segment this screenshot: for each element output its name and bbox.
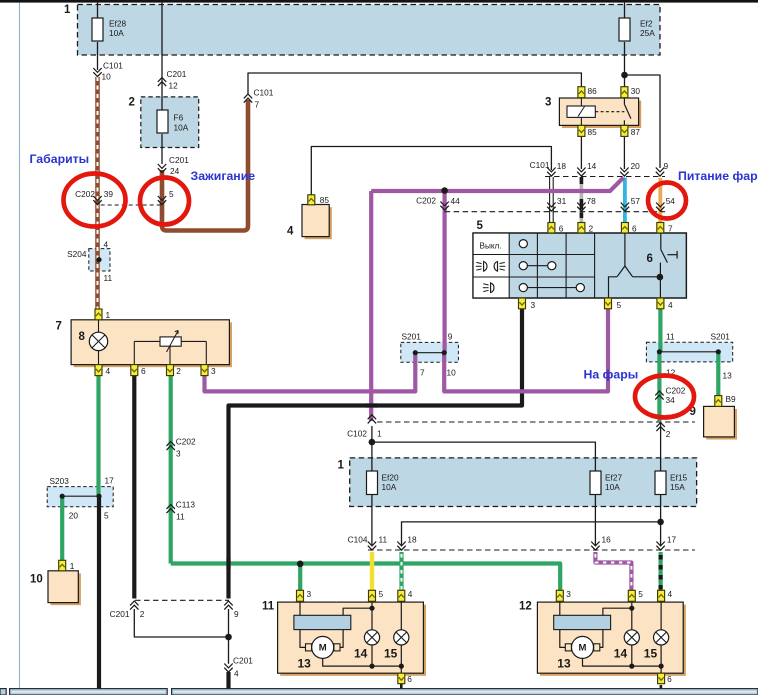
svg-text:18: 18 xyxy=(557,161,567,171)
headlamp unit 12 (right) body and internals xyxy=(537,602,685,676)
wire bus to C201-12 through box 1 xyxy=(161,3,163,110)
fuse Ef20 10A xyxy=(367,471,399,495)
svg-text:13: 13 xyxy=(298,657,312,671)
connector C102-1 xyxy=(347,415,382,439)
cluster terminal 2 xyxy=(167,365,182,376)
svg-text:85: 85 xyxy=(320,195,330,205)
svg-text:Зажигание: Зажигание xyxy=(191,169,256,183)
svg-text:C202: C202 xyxy=(176,437,196,447)
relay terminal 85 xyxy=(578,125,597,137)
svg-text:S204: S204 xyxy=(67,249,87,259)
svg-text:6: 6 xyxy=(647,253,653,265)
svg-text:4: 4 xyxy=(104,240,109,250)
connector C113-11 xyxy=(167,500,196,522)
junction dot green fog feed xyxy=(297,561,304,568)
highlight ellipse C202-34 xyxy=(635,376,694,418)
wire green branch to lamp 11 pin 3 xyxy=(298,564,302,591)
connector C201-12 xyxy=(158,69,187,90)
svg-text:5: 5 xyxy=(169,189,174,199)
svg-text:1: 1 xyxy=(70,561,75,571)
svg-text:13: 13 xyxy=(557,657,571,671)
svg-text:4: 4 xyxy=(408,589,413,599)
svg-text:C113: C113 xyxy=(176,500,196,510)
cluster terminal 3 xyxy=(201,365,216,376)
bottom strip box right xyxy=(172,689,758,695)
wire C102 branch to Ef27 xyxy=(372,442,596,471)
component B9 body xyxy=(704,406,737,439)
svg-text:M: M xyxy=(319,643,327,654)
headlamp 11 (left) terminal 5 xyxy=(369,589,384,601)
wire C201-4 to next page (thick) xyxy=(226,672,230,689)
svg-text:5: 5 xyxy=(638,589,643,599)
relay K3 body xyxy=(559,98,641,128)
svg-text:10A: 10A xyxy=(605,482,620,492)
label 3 xyxy=(545,97,551,109)
label C101 relay row xyxy=(530,160,550,170)
svg-text:44: 44 xyxy=(451,196,461,206)
svg-text:11: 11 xyxy=(176,512,185,522)
svg-text:1: 1 xyxy=(377,429,382,439)
svg-text:F6: F6 xyxy=(174,113,184,123)
wire purple cluster pin 3 to S201-7 xyxy=(205,353,416,392)
svg-text:6: 6 xyxy=(667,674,672,684)
connector C104-11 xyxy=(348,535,388,551)
headlamp 11 (left) terminal 6 xyxy=(398,673,413,684)
headlamp 11 (left) terminal 4 xyxy=(398,589,413,601)
junction dot ground bus join xyxy=(225,634,232,641)
relay K3 contact xyxy=(595,98,631,125)
connector C101-10 xyxy=(93,61,123,82)
switch contact row 3 xyxy=(519,284,584,292)
wire splice S203 pin 5 to next page (thick) xyxy=(97,496,101,688)
splice S204 junction xyxy=(67,240,112,284)
svg-text:6: 6 xyxy=(559,224,564,234)
left margin rule xyxy=(19,3,21,688)
relay terminal 30 xyxy=(621,86,641,98)
svg-text:24: 24 xyxy=(170,166,180,176)
svg-text:7: 7 xyxy=(255,99,260,109)
switch terminal 2 top xyxy=(578,223,594,234)
svg-text:7: 7 xyxy=(668,224,673,234)
wire Ef27 to C104-16 xyxy=(594,495,596,546)
connector line C104 xyxy=(368,549,695,551)
label 11 xyxy=(262,601,275,613)
connector C202-54 xyxy=(656,196,675,211)
svg-text:13: 13 xyxy=(723,371,733,381)
svg-text:C101: C101 xyxy=(103,61,123,71)
wire green-white C104-18 to lamp 11 pin 4 xyxy=(399,552,403,591)
svg-text:10: 10 xyxy=(447,368,457,378)
connector C102-2 xyxy=(656,423,670,440)
connector C202-39 xyxy=(75,189,113,205)
switch contact row 2 xyxy=(519,262,556,270)
svg-text:Ef15: Ef15 xyxy=(670,473,687,483)
cluster 7 body xyxy=(71,320,232,367)
svg-text:78: 78 xyxy=(587,196,597,206)
svg-text:3: 3 xyxy=(566,589,571,599)
wire Ef15 branch to C104-18 xyxy=(402,522,661,545)
svg-text:C102: C102 xyxy=(347,429,367,439)
label 5 xyxy=(477,220,484,232)
switch contact row 1 xyxy=(519,240,527,248)
wire crossing patch black over green at ground bus xyxy=(226,558,230,570)
wire Ef28 feed from bus xyxy=(97,3,99,18)
svg-text:10A: 10A xyxy=(382,482,397,492)
svg-text:6: 6 xyxy=(141,366,146,376)
svg-text:10A: 10A xyxy=(174,123,189,133)
splice S204 xyxy=(89,249,110,271)
fuse Ef2 25A xyxy=(619,18,655,41)
splice S201 (left) xyxy=(401,342,459,362)
switch table grid xyxy=(473,233,686,298)
fuse box 1 (bottom row) xyxy=(350,458,697,507)
connector node 5 (ignition) xyxy=(158,189,174,205)
svg-text:12: 12 xyxy=(519,601,532,613)
cluster terminal 6 xyxy=(131,365,146,376)
component 10 terminal 1 xyxy=(59,560,75,571)
svg-text:2: 2 xyxy=(140,609,145,619)
splice S201 right junctions xyxy=(657,332,732,381)
connector C202-78 xyxy=(577,196,596,211)
connector C202-31 xyxy=(547,196,566,211)
svg-text:C201: C201 xyxy=(110,609,130,619)
highlight ellipse node 5 xyxy=(140,178,189,225)
svg-text:4: 4 xyxy=(668,589,673,599)
connector C101-14 xyxy=(577,161,596,176)
label 12 xyxy=(519,601,532,613)
svg-text:5: 5 xyxy=(477,220,484,232)
svg-text:31: 31 xyxy=(557,196,567,206)
svg-text:6: 6 xyxy=(632,224,637,234)
cluster terminal 1 xyxy=(95,309,111,320)
label 10 xyxy=(30,574,43,586)
wire purple S201-10 to switch pin 5 xyxy=(444,309,608,391)
svg-text:C202: C202 xyxy=(75,189,95,199)
label 7 xyxy=(56,321,62,333)
wire purple junction down to C102-1 xyxy=(369,191,373,421)
svg-text:3: 3 xyxy=(545,97,551,109)
svg-text:7: 7 xyxy=(56,321,62,333)
svg-text:86: 86 xyxy=(588,86,598,96)
svg-text:34: 34 xyxy=(666,395,676,405)
svg-text:54: 54 xyxy=(666,196,676,206)
svg-text:B9: B9 xyxy=(726,394,737,404)
svg-text:5: 5 xyxy=(379,589,384,599)
junction dot fuse Ef2 / node 9 xyxy=(621,72,628,79)
svg-text:3: 3 xyxy=(531,300,536,310)
wire C101-18 to switch pin 6 (double line) xyxy=(550,177,554,223)
svg-text:9: 9 xyxy=(448,332,453,342)
headlamp 12 (right) terminal 3 xyxy=(556,589,571,601)
fuse Ef15 15A xyxy=(655,471,687,495)
svg-text:S201: S201 xyxy=(711,332,731,342)
svg-text:5: 5 xyxy=(617,300,622,310)
connector C201-24 xyxy=(158,155,189,176)
wire lamp 12 pin 6 stub xyxy=(660,685,663,689)
wire green S201-12 to C202-34 xyxy=(657,352,661,422)
switch block body xyxy=(473,233,686,298)
svg-text:57: 57 xyxy=(631,196,641,206)
svg-text:Габариты: Габариты xyxy=(30,152,90,166)
svg-text:4: 4 xyxy=(668,300,673,310)
svg-text:C201: C201 xyxy=(169,155,189,165)
wire component 4 to C101-18 xyxy=(311,147,551,195)
wire green S203-20 to component 10 xyxy=(60,496,64,560)
svg-text:C202: C202 xyxy=(666,386,686,396)
junction dot Ef15 branch xyxy=(657,519,664,526)
cluster terminal 4 xyxy=(95,365,111,376)
label 9 xyxy=(690,406,696,418)
top window bar xyxy=(0,0,758,3)
svg-text:Питание фар: Питание фар xyxy=(678,169,758,183)
connector C201-4 xyxy=(224,656,253,679)
splice S201 left junctions xyxy=(402,332,457,378)
connector line C102 xyxy=(377,421,695,423)
svg-text:18: 18 xyxy=(407,535,417,545)
switch terminal 5 bottom xyxy=(605,298,622,310)
svg-text:Выкл.: Выкл. xyxy=(480,242,502,251)
switch icon park light xyxy=(483,283,494,293)
component 4 terminal 85 xyxy=(308,195,330,205)
connector C101-9 xyxy=(656,161,669,176)
wire Ef20 to C104-11 xyxy=(371,495,373,546)
svg-text:3: 3 xyxy=(307,589,312,599)
wire brown ignition C201-24 to C101-7 xyxy=(162,100,248,231)
fuse Ef28 10A xyxy=(92,18,126,41)
svg-text:5: 5 xyxy=(104,511,109,521)
wire green cluster pin 4 to S203-17 xyxy=(96,375,100,496)
svg-text:S203: S203 xyxy=(50,476,70,486)
wire Ef2 feed from bus xyxy=(624,3,626,18)
wire purple junction down to S201-9 xyxy=(443,191,447,353)
label 1 (bottom fuse box) xyxy=(338,460,345,472)
svg-text:15: 15 xyxy=(644,647,658,661)
dimmer switch 6 contacts xyxy=(609,233,678,298)
relay K3 coil xyxy=(567,98,595,125)
svg-text:20: 20 xyxy=(631,161,641,171)
label 6 xyxy=(647,253,653,265)
splice S203 junctions xyxy=(50,476,115,521)
wire green switch pin 4 to S201-11 xyxy=(658,309,662,352)
switch terminal 6b top xyxy=(621,223,637,234)
wire C102-1 into Ef20 xyxy=(371,426,373,471)
label 8 xyxy=(79,331,86,343)
svg-text:Ef20: Ef20 xyxy=(382,473,399,483)
switch terminal 6a top xyxy=(548,223,564,234)
headlamp 11 (left) terminal 3 xyxy=(297,589,312,601)
svg-text:10: 10 xyxy=(102,72,112,82)
highlight ellipse C202-39 xyxy=(64,174,126,227)
svg-text:30: 30 xyxy=(631,86,641,96)
wire purple-white C104-16 to lamp 12 pin 5 xyxy=(595,552,631,591)
component 4 body xyxy=(302,205,332,240)
label 2 (fuse box F6) xyxy=(129,97,135,109)
wire C202-34 to Ef15 via C102-2 xyxy=(660,422,662,471)
svg-text:C202: C202 xyxy=(416,196,436,206)
wire orange node 54 to switch pin 7 xyxy=(658,178,662,223)
wire relay 85 down to C101-14 xyxy=(580,137,582,169)
bottom strip box left stub xyxy=(0,689,6,695)
connector C201-9 bottom xyxy=(224,601,239,619)
headlamp unit 11 (left) body and internals xyxy=(278,602,426,676)
svg-text:20: 20 xyxy=(69,511,79,521)
wire cluster pin 6 to C201-2 (thick) xyxy=(132,375,136,599)
fuse F6 10A xyxy=(157,110,189,133)
wire brown-white parking C101-10 to cluster pin 1 xyxy=(95,77,100,309)
svg-text:14: 14 xyxy=(614,647,628,661)
svg-text:10: 10 xyxy=(30,574,43,586)
connector C101-7 xyxy=(244,88,274,110)
svg-text:7: 7 xyxy=(420,368,425,378)
wire green S201-13 to B9 xyxy=(716,352,720,396)
wire C201-9 to junction xyxy=(228,609,230,664)
connector line C202 (switch row) xyxy=(445,211,665,213)
svg-text:14: 14 xyxy=(354,647,368,661)
svg-text:11: 11 xyxy=(379,535,388,545)
connector C202-3 xyxy=(167,437,197,459)
component B9 terminal xyxy=(715,394,736,406)
connector C101-20 xyxy=(620,161,640,176)
bottom strip box middle xyxy=(10,689,168,695)
svg-text:4: 4 xyxy=(287,226,294,238)
wire branch dot-30 to node 9 xyxy=(625,75,661,168)
svg-text:4: 4 xyxy=(234,668,239,678)
svg-text:9: 9 xyxy=(664,161,669,171)
component 10 body xyxy=(48,571,81,605)
svg-text:15: 15 xyxy=(384,647,398,661)
svg-text:17: 17 xyxy=(105,476,115,486)
svg-text:6: 6 xyxy=(407,674,412,684)
svg-text:3: 3 xyxy=(176,449,181,459)
connector line C202 (parking) xyxy=(101,204,162,206)
svg-text:87: 87 xyxy=(631,127,641,137)
connector C202-57 xyxy=(621,196,641,211)
switch terminal 4 bottom xyxy=(657,298,673,310)
svg-text:1: 1 xyxy=(338,460,345,472)
svg-text:M: M xyxy=(579,643,587,654)
connector C101-18 xyxy=(547,161,566,176)
switch icon low beams xyxy=(476,262,506,272)
headlamp 12 (right) terminal 4 xyxy=(658,589,673,601)
wire green horizontal to fog lamps xyxy=(171,564,561,591)
wire green cluster pin 2 to C113 and corner xyxy=(169,375,173,564)
switch table label column xyxy=(473,233,509,298)
svg-text:39: 39 xyxy=(104,189,114,199)
svg-text:2: 2 xyxy=(666,429,671,439)
svg-text:25A: 25A xyxy=(640,28,655,38)
wire relay 87 down to C101-20 xyxy=(623,137,625,169)
svg-text:8: 8 xyxy=(79,331,86,343)
label 1 (top fuse box) xyxy=(64,4,71,16)
wire ignition feed horizontal to relay 86 xyxy=(248,73,581,94)
fuse box 2 (F6) xyxy=(141,97,199,148)
svg-text:1: 1 xyxy=(106,310,111,320)
connector C201-2 xyxy=(110,601,145,619)
headlamp 12 (right) terminal 6 xyxy=(658,673,673,684)
svg-text:C201: C201 xyxy=(233,656,253,666)
fuse Ef27 10A xyxy=(590,471,622,495)
relay terminal 86 xyxy=(578,86,597,98)
svg-text:C101: C101 xyxy=(254,88,274,98)
svg-text:C201: C201 xyxy=(167,69,187,79)
svg-text:11: 11 xyxy=(262,601,275,613)
svg-text:11: 11 xyxy=(666,332,675,342)
switch label off xyxy=(480,242,502,251)
switch terminal 7 top xyxy=(657,223,673,234)
wire Ef2 to relay pin 30 xyxy=(624,42,626,87)
svg-text:Ef27: Ef27 xyxy=(605,473,622,483)
svg-text:1: 1 xyxy=(64,4,71,16)
svg-text:На фары: На фары xyxy=(584,368,639,382)
svg-text:17: 17 xyxy=(667,535,677,545)
connector C104-16 xyxy=(591,535,611,551)
splice S201 (right) xyxy=(646,342,732,362)
cluster rheostat xyxy=(134,331,206,365)
connector C104-18 xyxy=(397,535,417,551)
cluster lamp 8 xyxy=(89,320,107,365)
label 4 xyxy=(287,226,294,238)
highlight ellipse node 54 xyxy=(648,183,686,219)
relay terminal 87 xyxy=(621,125,641,137)
wire yellow C104-11 to lamp 11 pin 5 xyxy=(370,552,374,591)
headlamp 12 (right) terminal 5 xyxy=(628,589,643,601)
connector C202-44 xyxy=(416,196,460,211)
connector C202-34 xyxy=(655,386,686,406)
connector line C101 (relay row) xyxy=(545,176,665,178)
svg-text:9: 9 xyxy=(234,609,239,619)
svg-text:10A: 10A xyxy=(109,28,124,38)
fuse box 1 (engine compartment, top) xyxy=(78,5,661,56)
svg-text:85: 85 xyxy=(588,127,598,137)
svg-text:4: 4 xyxy=(106,366,111,376)
wire C201-2 to junction xyxy=(134,609,228,637)
switch terminal 3 bottom xyxy=(519,298,536,310)
annotation Питание фар xyxy=(678,169,758,183)
wire F6 to C201-24 xyxy=(161,134,163,164)
svg-text:14: 14 xyxy=(587,161,597,171)
annotation На фары xyxy=(584,368,639,382)
junction dot C102-1 xyxy=(369,439,376,446)
svg-text:16: 16 xyxy=(602,535,612,545)
svg-text:11: 11 xyxy=(104,273,113,283)
splice S203 xyxy=(47,487,113,507)
annotation Зажигание xyxy=(191,169,256,183)
junction dot purple C202-44 xyxy=(441,187,448,194)
wire green-black C104-17 to lamp 12 pin 4 xyxy=(658,552,662,591)
wire Ef28 to C101-10 xyxy=(97,42,99,70)
wire crossing patch black over purple at C102 drop xyxy=(366,403,378,407)
svg-text:S201: S201 xyxy=(402,332,422,342)
connector line C201 (bottom) xyxy=(135,599,229,601)
svg-text:12: 12 xyxy=(169,80,179,90)
wire grey relay85 circuit C101-14 to pin 2 xyxy=(580,177,584,223)
wire switch pin 3 to C201-9 (thick) xyxy=(229,309,523,599)
wire purple main horizontal with bend to C101-20 xyxy=(371,178,623,192)
svg-text:2: 2 xyxy=(589,224,594,234)
svg-text:C104: C104 xyxy=(348,535,368,545)
svg-text:15A: 15A xyxy=(670,482,685,492)
annotation Габариты xyxy=(30,152,90,166)
wire lamp 11 pin 6 stub xyxy=(400,684,403,689)
wire Ef15 to C104-17 xyxy=(660,495,662,546)
svg-text:2: 2 xyxy=(176,366,181,376)
connector C104-17 xyxy=(656,535,676,551)
wire cyan C101-20 to switch pin 6 xyxy=(623,178,627,223)
svg-text:2: 2 xyxy=(129,97,135,109)
svg-text:3: 3 xyxy=(211,366,216,376)
svg-text:C101: C101 xyxy=(530,160,550,170)
